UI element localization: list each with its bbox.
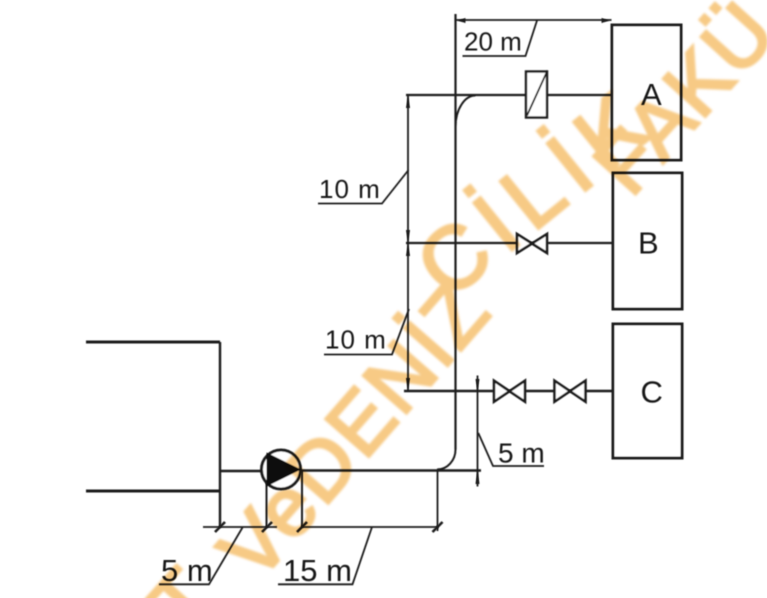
dim line bottom 5 m [203,526,277,528]
dim line 20 m [456,19,612,21]
dim line 5 m riser [477,376,479,487]
consumer box B [613,173,682,309]
tick at x=302 [297,522,307,532]
dim line 10 m vertical [407,95,409,391]
pump stand right / extension line [301,471,303,527]
leader 20 m [463,21,538,57]
arrow 20m right [602,18,610,23]
gate valve V1 on branch B [517,234,547,253]
dimension arrows [406,18,610,484]
leader 10 m upper [318,170,409,204]
arrow 10m top (up) [406,96,410,108]
arrow 5m riser top (down) [476,379,480,391]
arrow 10m mid (down) [406,230,410,242]
tank bottom wall [86,490,219,493]
dim line bottom 15 m [302,526,438,528]
extension line at riser bottom bend [437,470,439,531]
gate valve V2 on branch C [494,381,525,402]
consumer box A [612,25,681,160]
branch pipe C [404,390,613,392]
leader 5 m riser [478,433,544,466]
svg-text:20 m: 20 m [464,27,522,57]
tick at x=437.5 [433,522,443,532]
oblique ticks on bottom dims [215,522,443,532]
leader 5 m bottom [159,528,243,585]
svg-text:B: B [638,226,659,261]
gate valve V3 on branch C [555,381,586,402]
tick at x=220 [215,522,225,532]
arrow 20m left [458,18,466,23]
tank right wall / extension line [219,342,221,527]
tank top wall [86,341,220,344]
discharge pipe (bottom run) [300,469,481,471]
tick at x=267 [262,522,272,532]
dimension texts [161,27,545,588]
pump stand left / extension line [266,471,268,527]
riser top bend arc [456,96,476,128]
suction pipe [219,470,266,472]
pump P [262,450,302,489]
dimension lines [159,20,612,584]
branch pipe A [406,94,612,96]
svg-text:C: C [641,375,663,410]
arrow 10m bottom (down) [406,378,410,390]
riser bottom bend arc [437,450,456,470]
branch pipe B [406,242,613,244]
check valve on branch A [526,71,548,118]
arrow 10m mid (up) [406,244,410,256]
arrow 5m riser bottom (up) [476,471,480,485]
consumer box C [613,324,682,458]
riser pipe [454,14,456,450]
leader 15 m bottom [278,527,372,584]
leader 10 m lower [324,309,409,355]
svg-text:10 m: 10 m [319,174,381,204]
svg-text:5 m: 5 m [498,438,545,469]
